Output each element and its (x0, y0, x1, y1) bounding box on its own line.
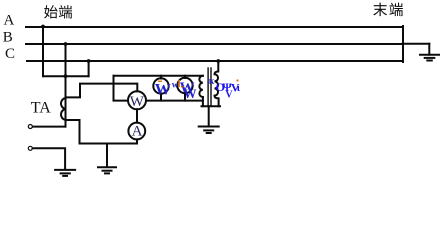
svg-text:TA: TA (31, 100, 51, 117)
svg-text:w: w (172, 79, 179, 89)
svg-text:B: B (3, 29, 13, 45)
svg-text:C: C (5, 46, 15, 62)
svg-text:ι: ι (237, 82, 241, 94)
svg-text:W: W (155, 82, 171, 99)
svg-text:A: A (132, 124, 143, 140)
svg-text:A: A (4, 13, 15, 29)
svg-text:κ: κ (209, 76, 215, 87)
svg-text:W: W (130, 94, 145, 110)
svg-text:W: W (184, 86, 197, 101)
